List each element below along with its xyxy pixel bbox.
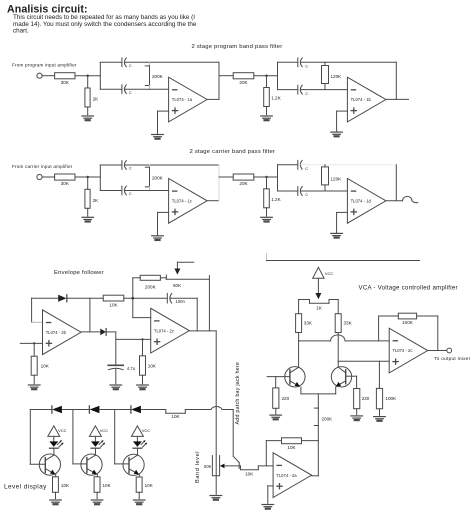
svg-text:From carrier input amplifier: From carrier input amplifier bbox=[12, 164, 73, 169]
capacitor C (bottom) bbox=[122, 85, 132, 95]
wire bbox=[142, 339, 144, 355]
diode D4 (left pointing) bbox=[89, 406, 99, 414]
wire + input bbox=[158, 110, 169, 112]
svg-text:C: C bbox=[305, 91, 308, 96]
svg-text:TL074 - 2b: TL074 - 2b bbox=[46, 330, 67, 335]
wire bbox=[75, 75, 100, 77]
svg-text:C: C bbox=[129, 191, 132, 196]
svg-text:50K: 50K bbox=[173, 283, 182, 288]
wire bbox=[254, 176, 278, 178]
wire output bbox=[386, 200, 403, 202]
wire bbox=[141, 409, 166, 411]
ground bbox=[152, 135, 164, 139]
wire bbox=[301, 190, 348, 192]
wire hop over right branch bbox=[331, 335, 345, 341]
wire feedback top bbox=[125, 61, 219, 63]
op-amp U1d bbox=[347, 179, 386, 224]
svg-text:chart.: chart. bbox=[13, 28, 29, 35]
wire bbox=[266, 208, 268, 216]
wire bbox=[317, 394, 319, 408]
svg-text:Level display: Level display bbox=[4, 484, 47, 491]
wire base drop bbox=[114, 410, 116, 464]
wire + input bbox=[337, 110, 348, 112]
wire pot right to output bbox=[208, 276, 210, 331]
svg-text:VCC: VCC bbox=[142, 428, 151, 433]
svg-text:VCC: VCC bbox=[325, 271, 334, 276]
ground bbox=[91, 500, 103, 504]
ground bbox=[133, 500, 145, 504]
wire bbox=[87, 107, 89, 115]
op-amp U2c bbox=[151, 308, 190, 353]
wire bbox=[115, 368, 117, 384]
capacitor C (stage2 top) bbox=[298, 160, 308, 171]
svg-text:2 stage carrier band pass filt: 2 stage carrier band pass filter bbox=[190, 149, 276, 155]
VCC symbol bbox=[313, 267, 334, 278]
svg-text:2K: 2K bbox=[93, 198, 100, 203]
pot wiper arrow bbox=[174, 262, 193, 274]
wire bbox=[42, 176, 55, 178]
op-amp U1b bbox=[347, 77, 386, 122]
potentiometer 50K bbox=[160, 275, 209, 288]
node junction bbox=[141, 338, 143, 340]
svg-text:120K: 120K bbox=[331, 177, 343, 182]
wire collector right bbox=[337, 333, 339, 367]
wire right branch bbox=[329, 299, 338, 301]
node junction bbox=[33, 342, 35, 344]
capacitor C (stage2 bottom) bbox=[298, 187, 308, 198]
wire to op-amp non-inverting bbox=[338, 360, 389, 362]
ground bbox=[261, 116, 273, 120]
svg-text:VCA - Voltage controlled ampli: VCA - Voltage controlled amplifier bbox=[359, 285, 458, 292]
wire bbox=[170, 297, 197, 299]
wire + input bbox=[116, 338, 151, 340]
svg-text:Add patch bay jack here: Add patch bay jack here bbox=[235, 362, 241, 425]
ground bbox=[152, 236, 164, 240]
resistor 20K bbox=[233, 174, 254, 180]
wire bottom stage2 bbox=[278, 190, 298, 192]
resistor 30K bbox=[55, 174, 75, 180]
LED1 bbox=[49, 436, 63, 448]
wire bbox=[302, 440, 319, 442]
capacitor C (top) bbox=[122, 161, 132, 171]
wire output bbox=[386, 98, 409, 100]
resistor 10K bbox=[94, 477, 100, 493]
svg-text:10K: 10K bbox=[103, 483, 112, 488]
wire down to 2a output bbox=[317, 426, 319, 476]
wire + input bbox=[20, 342, 42, 344]
wire bbox=[125, 190, 169, 192]
node junction bbox=[265, 176, 267, 178]
diode D2 bbox=[100, 329, 106, 336]
wire branch vertical bbox=[99, 165, 101, 191]
wire bbox=[87, 208, 89, 216]
op-amp U2a bbox=[273, 453, 312, 498]
svg-text:C: C bbox=[305, 192, 308, 197]
wire top rail bbox=[30, 409, 52, 411]
wire feedback top bbox=[125, 164, 219, 166]
wire down bbox=[232, 410, 234, 457]
svg-text:50K: 50K bbox=[204, 464, 212, 469]
potentiometer 50K (Band level) bbox=[204, 456, 220, 476]
ground bbox=[351, 416, 363, 420]
svg-text:C: C bbox=[129, 63, 132, 68]
resistor 10K bbox=[31, 356, 37, 375]
wire output bbox=[189, 330, 216, 332]
capacitor C (stage2 bottom) bbox=[298, 85, 308, 96]
resistor 200K (thin) bbox=[145, 165, 163, 191]
op-amp U1c bbox=[169, 179, 208, 224]
svg-text:100K: 100K bbox=[402, 320, 414, 325]
resistor 10K bbox=[53, 477, 59, 493]
wire output bbox=[428, 350, 447, 352]
resistor 33K left bbox=[296, 314, 302, 333]
wire feedback bus stage2 bbox=[395, 165, 397, 201]
op-amp U1a bbox=[169, 77, 208, 122]
resistor 33K right bbox=[335, 314, 341, 333]
ground bbox=[50, 500, 62, 504]
resistor 2K bbox=[85, 189, 90, 208]
svg-text:10K: 10K bbox=[245, 471, 254, 476]
wire diagonal bbox=[233, 456, 239, 462]
wire feedback up bbox=[265, 441, 267, 466]
ground bbox=[28, 385, 40, 389]
svg-text:C: C bbox=[129, 90, 132, 95]
capacitor 100n bbox=[167, 293, 185, 304]
wire input top bbox=[32, 297, 59, 299]
input terminal bbox=[37, 174, 42, 179]
wire base drop bbox=[29, 410, 31, 465]
ground bbox=[210, 496, 222, 500]
svg-text:1.2K: 1.2K bbox=[271, 96, 281, 101]
resistor 220 right bbox=[354, 376, 370, 415]
svg-text:200K: 200K bbox=[322, 417, 334, 422]
wire collector left bbox=[298, 341, 300, 367]
svg-text:33K: 33K bbox=[304, 320, 313, 325]
transistor Q1 (left) bbox=[267, 367, 305, 394]
svg-text:200K: 200K bbox=[152, 176, 164, 181]
wire inverting drop bbox=[31, 298, 33, 322]
svg-text:VCC: VCC bbox=[58, 428, 67, 433]
pot wiper arrow bbox=[220, 464, 241, 469]
wire bbox=[100, 164, 122, 166]
wire output bus down bbox=[215, 331, 217, 476]
output terminal bbox=[447, 348, 452, 353]
resistor 30K bbox=[55, 73, 75, 79]
wire bbox=[33, 343, 35, 356]
svg-text:10K: 10K bbox=[287, 445, 296, 450]
svg-text:200K: 200K bbox=[145, 285, 157, 290]
resistor 10K feedback bbox=[282, 438, 302, 444]
svg-text:TL074 - 2a: TL074 - 2a bbox=[276, 473, 297, 478]
svg-text:10K: 10K bbox=[145, 483, 154, 488]
svg-text:100n: 100n bbox=[176, 299, 186, 304]
resistor 1.2K bbox=[264, 189, 270, 208]
resistor 100K feedback bbox=[398, 313, 416, 319]
wire bbox=[345, 340, 389, 342]
svg-text:C: C bbox=[129, 166, 132, 171]
resistor 120K bbox=[322, 62, 343, 89]
resistor 220 left bbox=[273, 377, 290, 414]
wire bbox=[124, 297, 168, 299]
wire stage 2 bbox=[219, 75, 233, 77]
resistor 20K bbox=[233, 73, 254, 79]
wire + input bbox=[158, 211, 169, 213]
svg-text:220: 220 bbox=[362, 396, 370, 401]
wire feedback down bbox=[196, 298, 198, 331]
capacitor C (bottom) bbox=[122, 186, 132, 196]
wire output bbox=[207, 98, 219, 100]
ground bbox=[82, 217, 94, 221]
node junction bbox=[265, 75, 267, 77]
svg-text:1.2K: 1.2K bbox=[271, 197, 281, 202]
resistor 200K (thin) bbox=[314, 408, 333, 425]
wire bbox=[266, 107, 268, 115]
diode D3 (left pointing) bbox=[52, 406, 62, 414]
wire bbox=[278, 164, 298, 166]
wire bbox=[87, 177, 89, 189]
wire bbox=[298, 333, 300, 341]
wire to op-amp inverting bbox=[299, 340, 331, 342]
VCC symbol bbox=[89, 426, 108, 437]
wire branch vertical stage2 bbox=[277, 62, 279, 89]
resistor 2K bbox=[85, 88, 90, 107]
wire bbox=[100, 61, 122, 63]
resistor 10K bbox=[136, 477, 142, 492]
svg-text:TL074 - 1a: TL074 - 1a bbox=[172, 97, 193, 102]
wire + input bbox=[268, 485, 273, 487]
transistor Q5 bbox=[115, 448, 145, 477]
wire output bbox=[207, 200, 219, 202]
resistor 100K bbox=[376, 388, 382, 408]
wire output bbox=[312, 475, 319, 477]
svg-text:C: C bbox=[305, 166, 308, 171]
ground bbox=[137, 385, 149, 389]
wire bbox=[125, 88, 169, 90]
svg-text:220: 220 bbox=[282, 396, 290, 401]
VCC symbol bbox=[131, 426, 150, 437]
ground bbox=[331, 132, 343, 136]
wire bbox=[254, 75, 278, 77]
svg-text:30K: 30K bbox=[61, 80, 70, 85]
wire bbox=[62, 409, 90, 411]
input terminal bbox=[37, 73, 42, 78]
wire bbox=[185, 409, 211, 411]
LED3 bbox=[133, 436, 147, 448]
wire bbox=[222, 409, 233, 411]
svg-text:TL074 - 1b: TL074 - 1b bbox=[351, 97, 372, 102]
resistor 200K bbox=[140, 275, 160, 280]
wire down to output bbox=[89, 298, 91, 332]
svg-text:TL074 - 2c: TL074 - 2c bbox=[154, 328, 174, 333]
svg-text:2K: 2K bbox=[93, 97, 100, 102]
svg-text:TL074 - 1d: TL074 - 1d bbox=[351, 199, 372, 204]
wire output bus bbox=[218, 62, 220, 99]
diode D5 (left pointing) bbox=[131, 406, 141, 414]
svg-text:Band level: Band level bbox=[195, 451, 201, 483]
capacitor C (stage2 top) bbox=[298, 58, 308, 69]
svg-text:made 14). You must only switc: made 14). You must only switch the conde… bbox=[13, 21, 197, 28]
ground bbox=[331, 233, 343, 237]
resistor 10K (staple) bbox=[166, 410, 186, 420]
svg-text:10K: 10K bbox=[148, 363, 157, 368]
transistor Q2 (right, mirrored) bbox=[331, 367, 356, 394]
wire bbox=[99, 409, 130, 411]
ground bbox=[374, 417, 386, 421]
svg-text:TL074 - 1c: TL074 - 1c bbox=[172, 199, 192, 204]
wire bbox=[87, 76, 89, 88]
ground bbox=[110, 385, 122, 389]
wire emitter rail bbox=[301, 393, 336, 395]
wire branch vertical stage2 bbox=[277, 165, 279, 191]
wire bottom branch bbox=[100, 190, 122, 192]
svg-text:100K: 100K bbox=[385, 396, 397, 401]
svg-text:33K: 33K bbox=[344, 320, 353, 325]
wire inverting input bbox=[132, 298, 134, 317]
svg-text:To output mixer: To output mixer bbox=[434, 356, 471, 362]
svg-text:20K: 20K bbox=[239, 181, 248, 186]
resistor 10K bbox=[140, 356, 146, 375]
wire base drop bbox=[72, 410, 74, 464]
VCC symbol bbox=[48, 426, 67, 437]
transistor Q3 bbox=[30, 448, 60, 477]
wire feedback up bbox=[378, 316, 380, 341]
resistor 120K bbox=[322, 165, 343, 191]
wire bbox=[67, 297, 103, 299]
svg-text:30K: 30K bbox=[61, 181, 70, 186]
svg-text:120K: 120K bbox=[331, 74, 343, 79]
resistor 1K (staple) bbox=[310, 300, 330, 311]
op-amp U2c VCA bbox=[389, 328, 428, 373]
svg-text:10K: 10K bbox=[41, 363, 50, 368]
wire bottom stage2 bbox=[278, 89, 298, 91]
wire pot to ground bbox=[215, 476, 217, 495]
HEADER bbox=[7, 4, 197, 35]
svg-text:Envelope follower: Envelope follower bbox=[54, 270, 104, 276]
svg-text:2 stage program band pass filt: 2 stage program band pass filter bbox=[192, 44, 283, 50]
wire output bbox=[81, 331, 100, 333]
wire bbox=[266, 177, 268, 189]
wire + input bbox=[337, 211, 348, 213]
wire bbox=[301, 89, 348, 91]
wire bbox=[96, 492, 98, 499]
wire bbox=[258, 465, 273, 467]
svg-text:VCC: VCC bbox=[100, 428, 109, 433]
wire bbox=[106, 331, 116, 333]
wire stage 2 bbox=[219, 176, 233, 178]
resistor 10K input (staple) bbox=[241, 466, 259, 476]
wire feedback top stage2 (faint) bbox=[301, 164, 397, 166]
wire bbox=[142, 375, 144, 384]
svg-text:20K: 20K bbox=[239, 80, 248, 85]
wire bbox=[266, 76, 268, 88]
svg-text:C: C bbox=[305, 64, 308, 69]
node junction bbox=[87, 176, 89, 178]
svg-text:200K: 200K bbox=[152, 74, 164, 79]
wire bbox=[138, 492, 140, 499]
wire left branch bbox=[299, 299, 310, 301]
ground bbox=[261, 217, 273, 221]
wire bbox=[133, 277, 140, 279]
ground bbox=[270, 415, 282, 419]
wire bbox=[42, 75, 55, 77]
wire feedback top stage2 bbox=[301, 61, 397, 63]
wire 100K to ground drop bbox=[378, 361, 380, 388]
capacitor 4.7u bbox=[108, 365, 136, 371]
resistor 10K feedback bbox=[103, 295, 124, 301]
svg-text:10K: 10K bbox=[61, 483, 70, 488]
wire feedback bus stage2 bbox=[395, 62, 397, 99]
ground bbox=[262, 505, 274, 509]
transistor Q4 bbox=[73, 448, 102, 477]
svg-text:From program input amplifier: From program input amplifier bbox=[12, 62, 77, 67]
op-amp U2b bbox=[43, 310, 82, 355]
output curl bbox=[403, 196, 418, 202]
diode D1 bbox=[58, 295, 67, 302]
node A junction bbox=[87, 75, 89, 77]
wire bbox=[379, 409, 381, 416]
wire up to 200K bbox=[132, 278, 134, 298]
wire cap branch vertical bbox=[115, 332, 117, 365]
svg-text:4.7u: 4.7u bbox=[127, 366, 136, 371]
svg-text:10K: 10K bbox=[109, 303, 118, 308]
LED2 bbox=[91, 436, 105, 448]
ground bbox=[82, 116, 94, 120]
wire bbox=[55, 492, 57, 499]
wire bbox=[33, 375, 35, 384]
wire output bus (faint) bbox=[218, 165, 220, 201]
wire bbox=[278, 61, 298, 63]
wire with arrow bbox=[315, 278, 321, 299]
wire bbox=[75, 176, 100, 178]
node junction bbox=[132, 297, 135, 300]
wire bottom branch bbox=[100, 88, 122, 90]
capacitor C (top) bbox=[122, 58, 132, 68]
wire supply rail bbox=[266, 254, 268, 261]
wire branch vertical bbox=[99, 62, 101, 89]
svg-text:10K: 10K bbox=[171, 414, 180, 419]
svg-text:TL074 - 2c: TL074 - 2c bbox=[392, 348, 412, 353]
wire bbox=[417, 315, 438, 317]
svg-text:1K: 1K bbox=[316, 305, 323, 310]
resistor 200K (thin) bbox=[145, 62, 163, 89]
resistor 1.2K bbox=[264, 88, 270, 107]
wire hop over bus bbox=[211, 407, 222, 410]
